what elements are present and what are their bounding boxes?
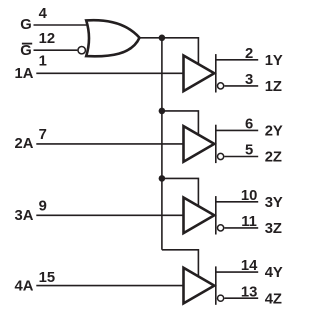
svg-text:9: 9 xyxy=(39,199,47,215)
svg-text:7: 7 xyxy=(39,127,47,143)
wire input 4A xyxy=(36,285,183,287)
wire enable branch to U4 xyxy=(162,178,199,206)
node junction dot enable/ch1 xyxy=(159,35,166,42)
svg-text:3: 3 xyxy=(245,72,253,88)
wire enable branch to U3 xyxy=(162,111,199,135)
svg-text:4A: 4A xyxy=(14,278,33,294)
svg-text:1Y: 1Y xyxy=(265,53,283,69)
svg-text:14: 14 xyxy=(241,258,258,274)
node junction dot enable/ch2 xyxy=(159,108,166,115)
wire G input xyxy=(34,24,89,26)
svg-text:10: 10 xyxy=(241,188,257,204)
wire G-bar input xyxy=(34,49,78,51)
wire OR output / enable branch to U2 xyxy=(140,38,199,65)
svg-text:G: G xyxy=(20,17,32,33)
svg-text:11: 11 xyxy=(241,214,257,230)
wire input 1A xyxy=(36,72,183,74)
svg-text:2Z: 2Z xyxy=(265,150,282,166)
node junction dot enable/ch3 xyxy=(159,175,166,182)
wire output bar ch4 xyxy=(215,266,217,304)
bubble output 3Z xyxy=(218,225,224,231)
wire output 4Y xyxy=(216,271,258,273)
wire output bar ch1 xyxy=(215,54,217,92)
svg-text:6: 6 xyxy=(245,117,253,133)
bubble on G-bar input of U1 xyxy=(78,47,85,54)
svg-text:2Y: 2Y xyxy=(265,124,283,140)
wire output 2Z xyxy=(225,156,259,158)
wire output 3Y xyxy=(216,201,258,203)
svg-text:5: 5 xyxy=(245,143,253,159)
svg-text:4: 4 xyxy=(39,6,48,22)
wire enable rail vertical xyxy=(161,38,163,250)
buffer U5 (channel 4) xyxy=(184,268,215,304)
svg-text:1: 1 xyxy=(39,54,47,70)
svg-text:1Z: 1Z xyxy=(265,79,282,95)
wire output 1Z xyxy=(225,85,259,87)
wire output 2Y xyxy=(216,129,258,131)
svg-text:3Z: 3Z xyxy=(265,221,282,237)
svg-text:3Y: 3Y xyxy=(265,195,283,211)
svg-text:1A: 1A xyxy=(14,66,33,82)
bubble output 4Z xyxy=(218,295,224,301)
wire output 3Z xyxy=(225,227,259,229)
svg-text:15: 15 xyxy=(39,270,55,286)
bubble output 1Z xyxy=(218,83,224,89)
bubble output 2Z xyxy=(218,153,224,159)
svg-text:4Y: 4Y xyxy=(265,265,283,281)
wire output 1Y xyxy=(216,59,258,61)
buffer U2 (channel 1) xyxy=(184,56,215,92)
svg-text:G: G xyxy=(20,43,32,59)
wire output 4Z xyxy=(225,297,259,299)
svg-text:4Z: 4Z xyxy=(265,291,282,307)
wire input 2A xyxy=(36,143,183,145)
svg-text:3A: 3A xyxy=(14,208,33,224)
wire output bar ch3 xyxy=(215,196,217,234)
or-gate U1 (enable gate) xyxy=(86,20,139,56)
buffer U4 (channel 3) xyxy=(184,198,215,234)
svg-text:2A: 2A xyxy=(14,136,33,152)
wire enable branch to U5 xyxy=(162,250,199,277)
svg-text:12: 12 xyxy=(39,31,55,47)
buffer U3 (channel 2) xyxy=(184,126,215,162)
svg-text:13: 13 xyxy=(241,284,257,300)
overline of G-bar xyxy=(22,43,32,45)
wire output bar ch2 xyxy=(215,125,217,163)
wire input 3A xyxy=(36,214,183,216)
svg-text:2: 2 xyxy=(245,46,253,62)
